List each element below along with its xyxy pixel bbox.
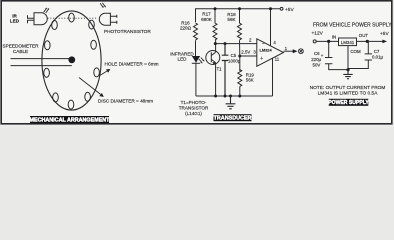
- disc (48mm): [42, 11, 101, 110]
- capacitor C5: [222, 44, 241, 96]
- ground rail: [196, 95, 273, 97]
- hole bottom-right: [85, 92, 91, 101]
- svg-text:+: +: [321, 53, 324, 58]
- wire R16 to LED: [195, 40, 197, 56]
- svg-text:LM341: LM341: [341, 40, 355, 45]
- junction dot C5 top: [224, 42, 227, 45]
- regulator LM341: [339, 38, 357, 46]
- output pin 1 wire and arrow: [284, 50, 294, 52]
- svg-text:220Ω: 220Ω: [180, 26, 192, 31]
- svg-text:C5: C5: [231, 53, 237, 58]
- svg-text:56K: 56K: [227, 17, 236, 22]
- ground symbol (transducer): [226, 96, 236, 109]
- LED emission arrows: [199, 58, 204, 63]
- svg-text:C6: C6: [314, 51, 320, 56]
- svg-text:+5V: +5V: [380, 31, 389, 37]
- svg-text:+12V: +12V: [312, 31, 324, 37]
- svg-text:LED: LED: [10, 19, 20, 24]
- svg-text:C7: C7: [374, 49, 380, 54]
- svg-text:2.5V: 2.5V: [241, 49, 250, 54]
- SPEEDOMETER CABLE label: [3, 43, 40, 54]
- svg-text:LM341 IS LIMITED TO 0.5A: LM341 IS LIMITED TO 0.5A: [318, 91, 379, 97]
- border frame: [1, 1, 392, 124]
- svg-text:LED: LED: [178, 57, 188, 62]
- arrow to hole: [99, 69, 110, 76]
- IR LED emission arrows: [44, 8, 49, 13]
- MECHANICAL ARRANGEMENT title box: [30, 116, 111, 124]
- note text: [310, 85, 386, 97]
- capacitor C7: [348, 41, 384, 68]
- junction dot C6: [327, 40, 330, 43]
- phototransistor incoming light arrows: [100, 3, 106, 8]
- IR LED package (mechanical): [28, 13, 48, 25]
- pin 11 wire: [272, 58, 274, 96]
- svg-text:DISC DIAMETER = 48mm: DISC DIAMETER = 48mm: [98, 99, 153, 104]
- op-amp U1 LM324: [257, 39, 284, 67]
- svg-text:LM324: LM324: [260, 48, 273, 53]
- POWER SUPPLY title box: [328, 99, 369, 106]
- svg-text:TRANSDUCER: TRANSDUCER: [214, 116, 252, 122]
- resistor R17: [213, 9, 217, 40]
- arrow to disc: [79, 78, 104, 97]
- svg-text:1000p: 1000p: [228, 58, 241, 63]
- hole left: [45, 41, 51, 50]
- speedometer cable shaft: [11, 59, 72, 66]
- hole bottom-center: [68, 100, 74, 109]
- svg-text:SPEEDOMETER: SPEEDOMETER: [3, 43, 40, 48]
- INFRARED LED label: [170, 51, 194, 61]
- wire R17 to T1 collector and to pin2: [215, 40, 257, 52]
- COM wire: [347, 46, 349, 70]
- node dot R18/R19/pin3: [238, 55, 241, 58]
- infrared LED D1: [192, 56, 205, 96]
- svg-text:+5V: +5V: [285, 7, 294, 13]
- disc axle dot: [68, 56, 75, 63]
- pin 4 wire: [270, 9, 272, 46]
- svg-text:POWER SUPPLY: POWER SUPPLY: [328, 100, 369, 106]
- R19 bottom wire: [239, 87, 241, 97]
- svg-text:CABLE: CABLE: [13, 49, 28, 54]
- svg-text:TRANSISTOR: TRANSISTOR: [179, 106, 209, 111]
- svg-text:HOLE DIAMETER = 6mm: HOLE DIAMETER = 6mm: [105, 62, 159, 67]
- junction dot C7: [366, 40, 369, 43]
- junction dot rail/R18: [238, 7, 241, 10]
- ground symbol (power supply): [343, 70, 352, 79]
- hole upper-right: [89, 20, 95, 29]
- svg-text:OUT: OUT: [359, 33, 369, 38]
- output wire: [357, 40, 383, 42]
- resistor R16: [194, 23, 198, 40]
- svg-text:(L14G1): (L14G1): [185, 111, 202, 116]
- page background: [0, 0, 394, 128]
- hole right: [91, 40, 97, 49]
- IR LED label: [10, 13, 20, 23]
- resistor R19: [238, 70, 242, 87]
- svg-text:T1: T1: [217, 67, 223, 72]
- svg-text:680K: 680K: [201, 17, 213, 22]
- svg-text:IN: IN: [332, 34, 336, 39]
- svg-text:PHOTOTRANSISTOR: PHOTOTRANSISTOR: [104, 29, 151, 34]
- svg-text:+: +: [260, 56, 263, 62]
- TRANSDUCER title box: [214, 114, 252, 122]
- hole bottom-left: [53, 93, 59, 102]
- junction dots on ground rail: [214, 95, 217, 98]
- +12V input terminal: [313, 40, 316, 43]
- svg-text:T1=PHOTO-: T1=PHOTO-: [181, 100, 207, 105]
- hole lower-right: [94, 68, 100, 77]
- junction dot collector node (R17 column): [214, 42, 217, 45]
- transistor T1 (phototransistor): [206, 51, 222, 97]
- +5V output arrow: [382, 40, 387, 44]
- svg-text:−: −: [262, 41, 265, 47]
- svg-text:50V: 50V: [313, 63, 321, 68]
- junction dot ground: [346, 68, 349, 71]
- hole top: [69, 13, 75, 22]
- svg-text:MECHANICAL ARRANGEMENT: MECHANICAL ARRANGEMENT: [30, 118, 111, 124]
- output node circle-X: [299, 49, 304, 54]
- hole upper-left: [52, 21, 58, 30]
- IR beam dotted line: [48, 17, 98, 19]
- svg-text:FROM VEHICLE POWER SUPPLY: FROM VEHICLE POWER SUPPLY: [313, 22, 392, 28]
- svg-text:11: 11: [275, 56, 280, 61]
- svg-text:56K: 56K: [246, 78, 254, 83]
- +5V terminal: [280, 7, 283, 10]
- hole lower-left: [44, 68, 50, 77]
- svg-text:NOTE: OUTPUT CURRENT FROM: NOTE: OUTPUT CURRENT FROM: [310, 85, 386, 91]
- capacitor C6 (electrolytic): [311, 41, 348, 69]
- resistor R18: [238, 9, 242, 40]
- input wire: [316, 40, 338, 42]
- svg-text:COM: COM: [350, 49, 361, 54]
- T1 note text: [179, 100, 209, 116]
- phototransistor package (mechanical): [99, 13, 117, 25]
- wire R18 bottom to node, node to pin3: [240, 40, 257, 71]
- +5V rail wire: [196, 9, 281, 22]
- svg-text:0.01µ: 0.01µ: [372, 55, 384, 60]
- junction dot rail/R17: [214, 7, 217, 10]
